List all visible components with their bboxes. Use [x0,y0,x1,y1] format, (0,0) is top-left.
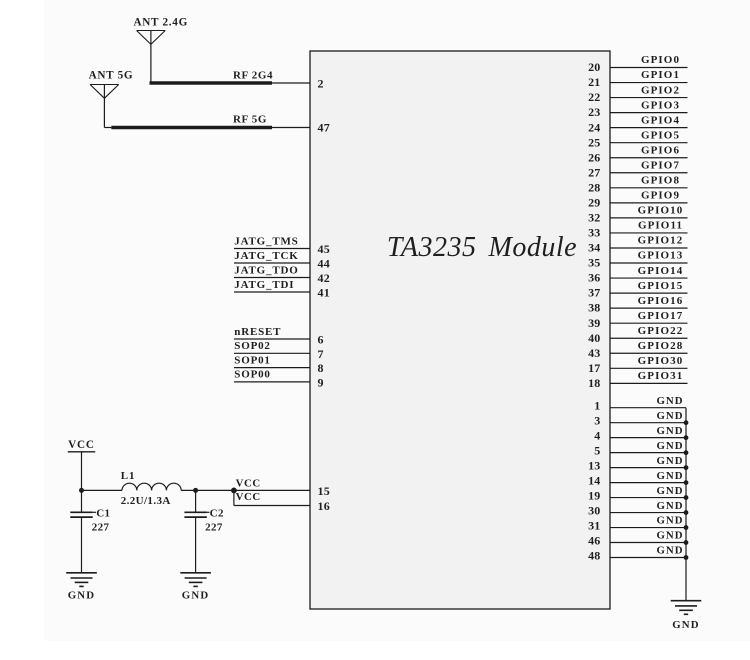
svg-text:JATG_TCK: JATG_TCK [234,250,298,262]
svg-text:31: 31 [588,519,600,533]
svg-text:JATG_TDO: JATG_TDO [234,264,298,276]
svg-text:40: 40 [588,331,600,345]
svg-text:GPIO17: GPIO17 [638,310,684,322]
svg-text:24: 24 [588,120,600,134]
svg-text:VCC: VCC [68,439,95,451]
svg-text:22: 22 [588,90,600,104]
svg-text:SOP01: SOP01 [234,354,270,366]
svg-text:20: 20 [588,60,600,74]
svg-text:SOP00: SOP00 [234,369,270,381]
svg-text:33: 33 [588,226,600,240]
svg-text:GND: GND [657,530,684,542]
svg-text:8: 8 [318,361,324,375]
svg-text:C2: C2 [210,507,224,519]
svg-text:GPIO10: GPIO10 [638,205,684,217]
svg-text:GND: GND [657,440,684,452]
svg-text:GND: GND [672,619,700,631]
svg-text:nRESET: nRESET [234,326,281,338]
svg-text:GND: GND [657,395,684,407]
svg-text:GND: GND [657,500,684,512]
svg-text:42: 42 [318,271,330,285]
svg-text:GPIO30: GPIO30 [638,355,684,367]
svg-text:35: 35 [588,256,600,270]
svg-text:19: 19 [588,489,600,503]
svg-text:GPIO2: GPIO2 [641,84,680,96]
svg-text:GND: GND [657,515,684,527]
svg-text:GPIO31: GPIO31 [638,370,684,382]
svg-text:34: 34 [588,241,600,255]
svg-text:GPIO1: GPIO1 [641,69,680,81]
svg-text:JATG_TDI: JATG_TDI [234,279,294,291]
svg-text:GPIO4: GPIO4 [641,114,680,126]
svg-text:GND: GND [657,470,684,482]
svg-text:ANT 5G: ANT 5G [89,70,134,82]
svg-text:41: 41 [318,286,330,300]
svg-text:227: 227 [92,521,110,533]
svg-text:GND: GND [657,425,684,437]
svg-text:GPIO0: GPIO0 [641,54,680,66]
svg-text:GPIO9: GPIO9 [641,190,680,202]
svg-text:VCC: VCC [236,478,261,490]
svg-text:38: 38 [588,301,600,315]
svg-text:47: 47 [318,121,330,135]
svg-text:36: 36 [588,271,600,285]
svg-text:VCC: VCC [236,491,261,503]
svg-text:GPIO28: GPIO28 [638,340,684,352]
svg-text:L1: L1 [121,470,136,482]
svg-text:227: 227 [205,521,223,533]
svg-text:GPIO14: GPIO14 [638,265,684,277]
svg-text:RF 2G4: RF 2G4 [233,70,273,82]
svg-text:5: 5 [594,444,600,458]
svg-text:GND: GND [182,590,210,602]
svg-text:17: 17 [588,361,600,375]
svg-text:RF 5G: RF 5G [233,114,267,126]
svg-text:GND: GND [657,545,684,557]
svg-text:44: 44 [318,257,330,271]
svg-text:GPIO22: GPIO22 [638,325,684,337]
svg-text:GPIO7: GPIO7 [641,159,680,171]
svg-text:GPIO5: GPIO5 [641,129,680,141]
svg-text:16: 16 [318,499,330,513]
svg-text:37: 37 [588,286,600,300]
svg-text:GND: GND [657,455,684,467]
svg-text:GND: GND [657,485,684,497]
svg-text:25: 25 [588,135,600,149]
svg-text:GND: GND [68,590,96,602]
svg-text:GPIO11: GPIO11 [638,220,683,232]
svg-text:GPIO12: GPIO12 [638,235,684,247]
svg-text:30: 30 [588,504,600,518]
svg-text:6: 6 [318,333,324,347]
svg-text:1: 1 [594,399,600,413]
svg-text:GND: GND [657,410,684,422]
svg-text:18: 18 [588,376,600,390]
svg-text:32: 32 [588,211,600,225]
svg-text:3: 3 [594,414,600,428]
svg-text:23: 23 [588,105,600,119]
svg-text:39: 39 [588,316,600,330]
svg-text:15: 15 [318,484,330,498]
svg-text:GPIO3: GPIO3 [641,99,680,111]
svg-text:45: 45 [318,242,330,256]
svg-text:43: 43 [588,346,600,360]
svg-text:13: 13 [588,459,600,473]
svg-text:14: 14 [588,474,600,488]
svg-text:7: 7 [318,347,324,361]
svg-text:9: 9 [318,376,324,390]
svg-text:27: 27 [588,165,600,179]
svg-text:2: 2 [318,77,324,91]
svg-text:SOP02: SOP02 [234,340,270,352]
svg-text:2.2U/1.3A: 2.2U/1.3A [121,495,171,507]
svg-text:28: 28 [588,180,600,194]
svg-text:JATG_TMS: JATG_TMS [234,235,298,247]
svg-text:46: 46 [588,534,600,548]
svg-text:TA3235 Module: TA3235 Module [387,232,577,263]
svg-text:GPIO16: GPIO16 [638,295,684,307]
svg-text:GPIO13: GPIO13 [638,250,684,262]
svg-text:GPIO8: GPIO8 [641,175,680,187]
svg-text:21: 21 [588,75,600,89]
svg-text:4: 4 [594,429,600,443]
svg-text:29: 29 [588,195,600,209]
svg-text:48: 48 [588,549,600,563]
svg-text:GPIO15: GPIO15 [638,280,684,292]
svg-text:ANT 2.4G: ANT 2.4G [134,16,189,28]
svg-text:GPIO6: GPIO6 [641,144,680,156]
svg-text:C1: C1 [96,507,110,519]
svg-text:26: 26 [588,150,600,164]
